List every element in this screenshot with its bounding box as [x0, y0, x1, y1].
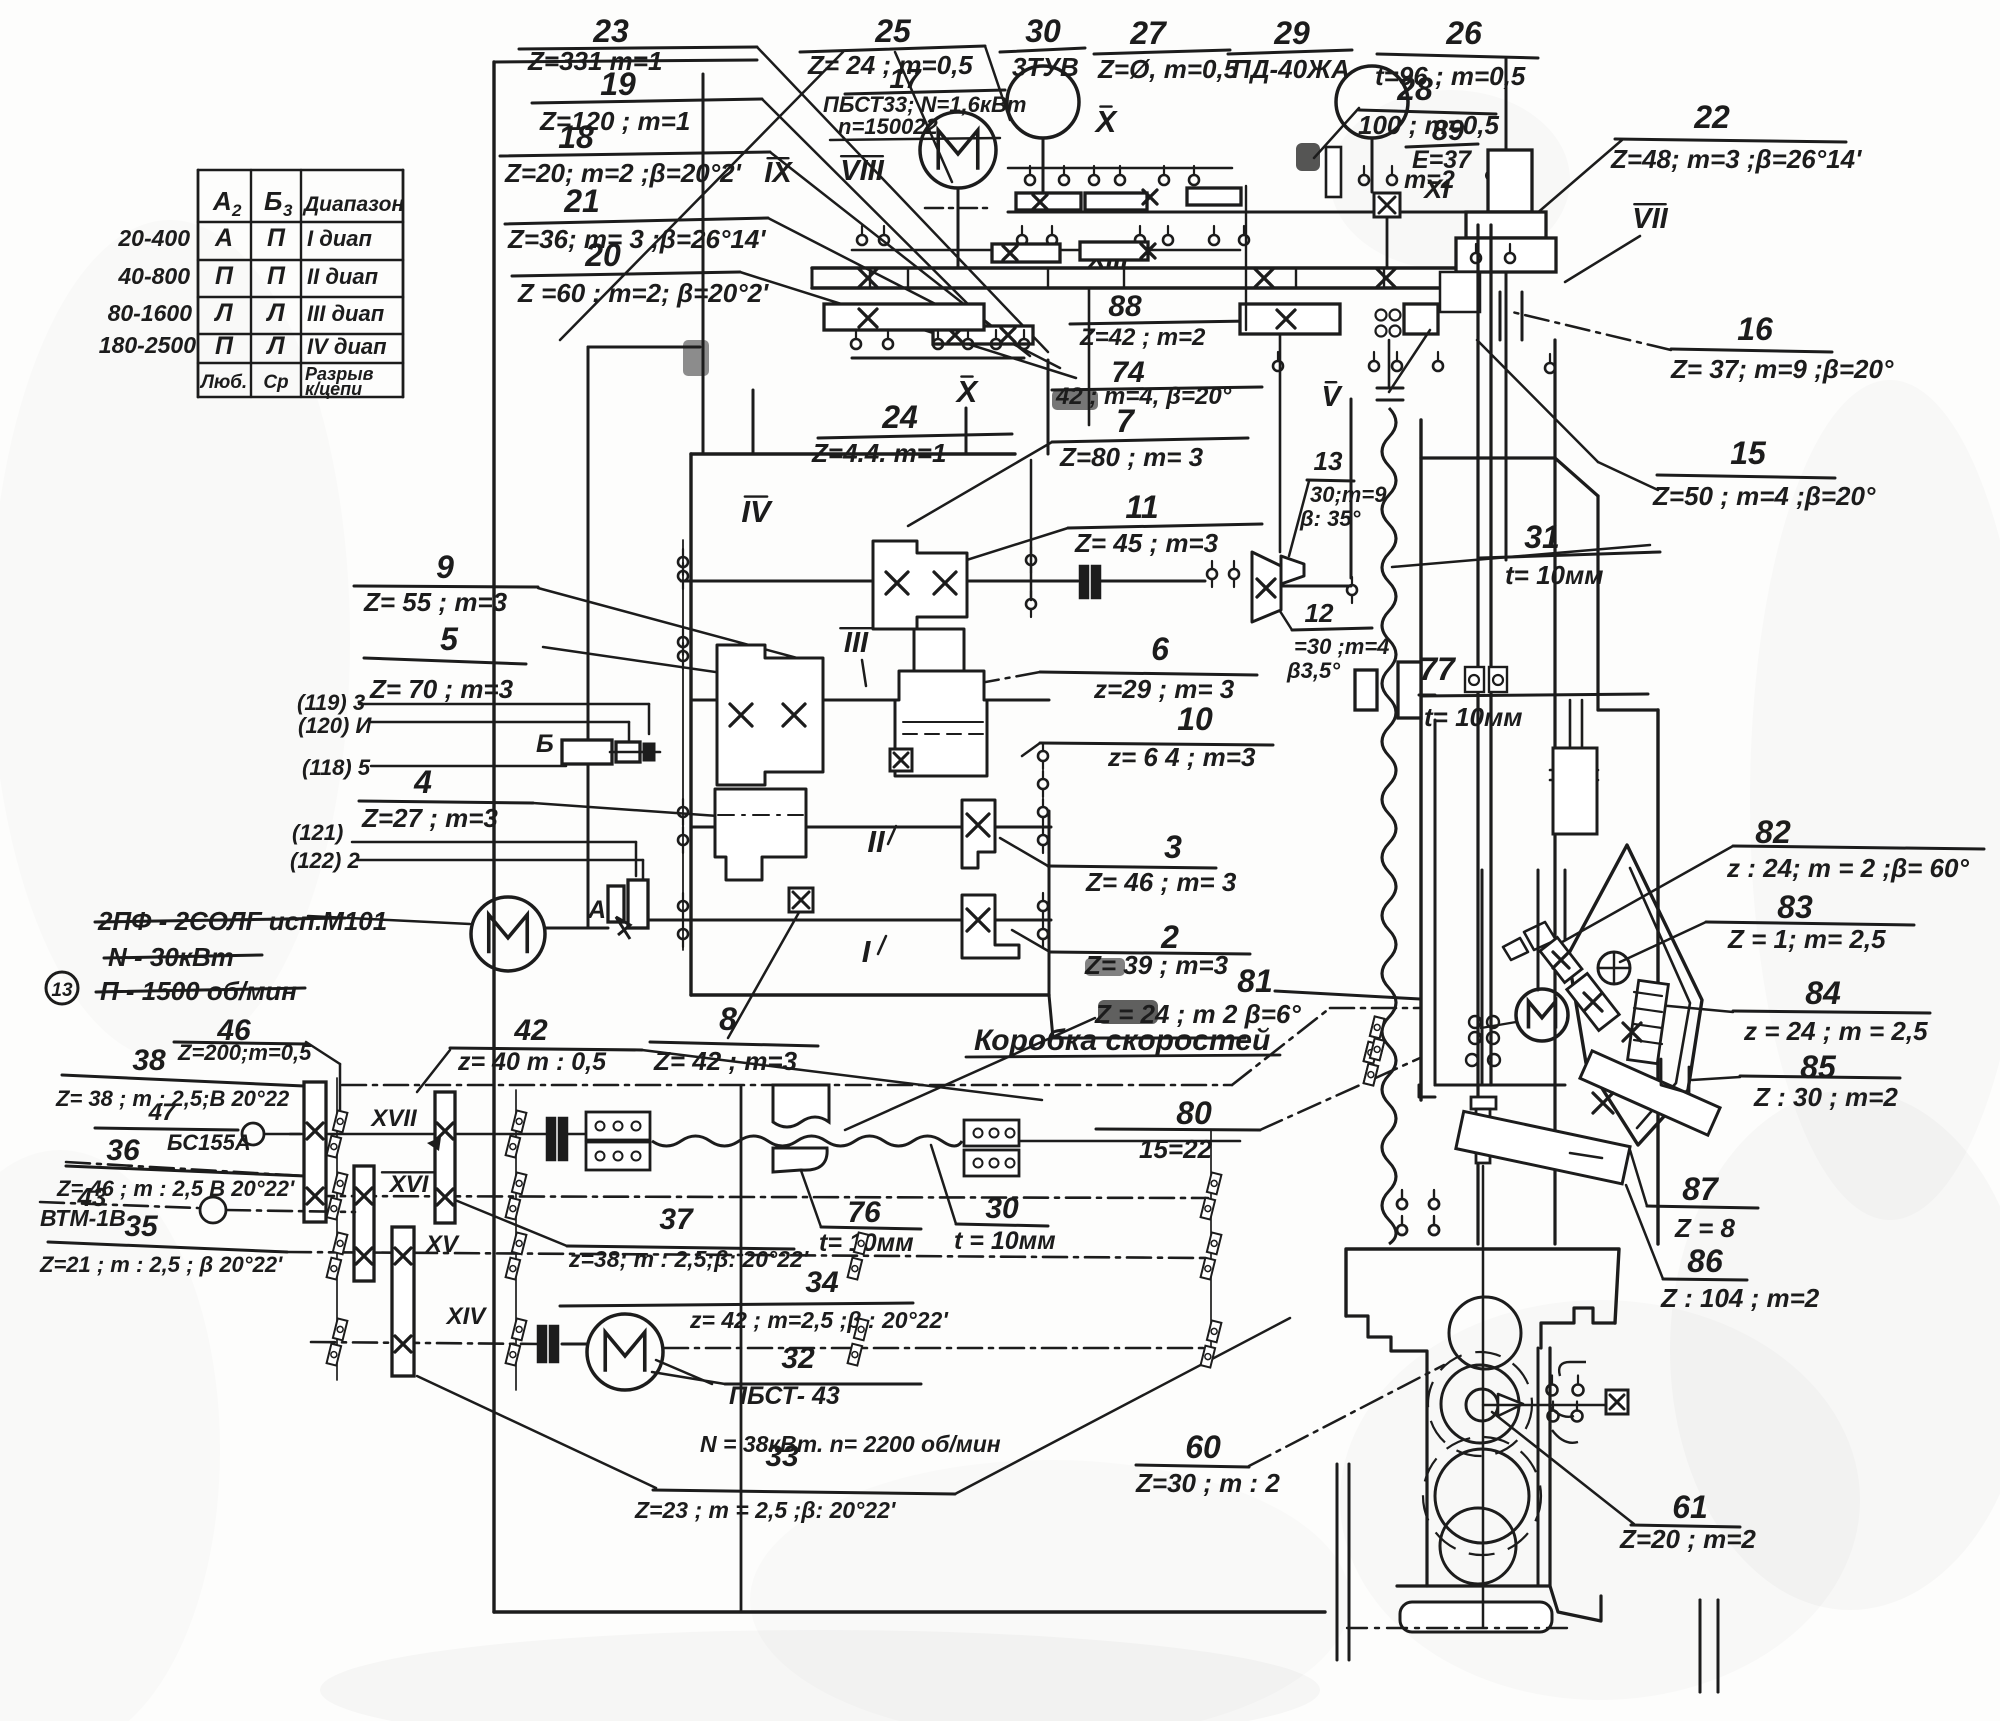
- svg-text:28: 28: [1396, 71, 1433, 107]
- svg-text:t= 10мм: t= 10мм: [1424, 702, 1522, 732]
- svg-text:Z : 104 ; m=2: Z : 104 ; m=2: [1660, 1283, 1820, 1313]
- svg-text:21: 21: [563, 183, 600, 219]
- svg-text:4: 4: [413, 764, 432, 800]
- svg-text:Z = 1; m= 2,5: Z = 1; m= 2,5: [1727, 924, 1886, 954]
- svg-text:87: 87: [1682, 1171, 1720, 1207]
- svg-text:Диапазон: Диапазон: [302, 193, 404, 216]
- svg-text:43: 43: [77, 1182, 107, 1212]
- svg-text:Z=20; m=2 ;β=20°2': Z=20; m=2 ;β=20°2': [504, 158, 742, 188]
- svg-text:77: 77: [1419, 651, 1457, 687]
- svg-text:z= 40 m : 0,5: z= 40 m : 0,5: [457, 1048, 607, 1076]
- svg-text:85: 85: [1800, 1049, 1837, 1085]
- svg-text:20-400: 20-400: [117, 225, 190, 251]
- svg-text:П: П: [267, 224, 286, 252]
- svg-text:Л: Л: [265, 299, 285, 327]
- svg-text:β3,5°: β3,5°: [1286, 658, 1340, 683]
- svg-text:Z=36; m= 3 ;β=26°14': Z=36; m= 3 ;β=26°14': [507, 224, 766, 254]
- svg-text:(120) И: (120) И: [298, 713, 372, 738]
- svg-text:ПБСТ- 43: ПБСТ- 43: [729, 1382, 840, 1410]
- svg-text:86: 86: [1687, 1243, 1723, 1279]
- svg-text:35: 35: [124, 1210, 159, 1243]
- svg-text:Z =60 ; m=2; β=20°2': Z =60 ; m=2; β=20°2': [517, 278, 769, 308]
- svg-text:Z=21 ; m : 2,5 ; β 20°22': Z=21 ; m : 2,5 ; β 20°22': [39, 1252, 283, 1277]
- svg-text:z = 24 ; m = 2,5: z = 24 ; m = 2,5: [1743, 1016, 1928, 1046]
- svg-text:12: 12: [1305, 598, 1334, 628]
- svg-text:76: 76: [847, 1196, 881, 1229]
- svg-text:Z=30 ; m : 2: Z=30 ; m : 2: [1135, 1468, 1280, 1498]
- svg-text:II диап: II диап: [307, 264, 379, 289]
- svg-text:23: 23: [592, 13, 629, 49]
- svg-text:15: 15: [1730, 435, 1767, 471]
- svg-text:z : 24; m = 2 ;β= 60°: z : 24; m = 2 ;β= 60°: [1726, 853, 1969, 883]
- svg-text:3: 3: [283, 201, 293, 220]
- svg-text:(118) 5: (118) 5: [302, 755, 371, 780]
- svg-text:20: 20: [584, 237, 621, 273]
- svg-text:Л: Л: [265, 332, 285, 360]
- svg-text:N = 38кВт. n= 2200 об/мин: N = 38кВт. n= 2200 об/мин: [700, 1431, 1001, 1457]
- svg-text:IV диап: IV диап: [307, 334, 387, 359]
- svg-text:22: 22: [1693, 99, 1730, 135]
- svg-text:I диап: I диап: [307, 226, 372, 251]
- svg-text:Z= 55 ; m=3: Z= 55 ; m=3: [363, 587, 508, 617]
- svg-text:ПД-40ЖА: ПД-40ЖА: [1232, 54, 1350, 84]
- svg-text:Б: Б: [264, 186, 282, 216]
- svg-text:9: 9: [436, 549, 454, 585]
- svg-text:33: 33: [765, 1440, 799, 1473]
- svg-text:Z= 37; m=9 ;β=20°: Z= 37; m=9 ;β=20°: [1670, 354, 1894, 384]
- svg-text:47: 47: [148, 1099, 177, 1126]
- svg-text:z=38; m : 2,5;β: 20°22': z=38; m : 2,5;β: 20°22': [568, 1246, 810, 1272]
- svg-text:А: А: [214, 224, 233, 252]
- svg-text:Б: Б: [536, 730, 554, 758]
- svg-text:38: 38: [132, 1044, 166, 1077]
- svg-text:36: 36: [106, 1134, 140, 1167]
- svg-text:(122) 2: (122) 2: [290, 848, 360, 873]
- svg-text:180-2500: 180-2500: [99, 332, 196, 358]
- svg-text:Л: Л: [213, 299, 233, 327]
- svg-text:3: 3: [1164, 829, 1182, 865]
- svg-text:83: 83: [1777, 889, 1813, 925]
- svg-text:40-800: 40-800: [117, 263, 190, 289]
- svg-text:6: 6: [1151, 631, 1169, 667]
- svg-text:БС155А: БС155А: [167, 1130, 251, 1155]
- svg-text:Z = 8: Z = 8: [1674, 1213, 1736, 1243]
- svg-text:XIV: XIV: [445, 1303, 488, 1330]
- svg-text:(121): (121): [292, 820, 343, 845]
- svg-text:88: 88: [1108, 290, 1142, 323]
- svg-text:П: П: [267, 262, 286, 290]
- svg-text:II: II: [867, 824, 886, 859]
- svg-text:82: 82: [1755, 814, 1791, 850]
- svg-text:11: 11: [1125, 489, 1158, 525]
- svg-text:37: 37: [659, 1203, 694, 1236]
- svg-text:XVI: XVI: [388, 1171, 430, 1198]
- svg-text:V: V: [1321, 381, 1343, 413]
- svg-text:89: 89: [1432, 115, 1464, 147]
- svg-text:13: 13: [1314, 446, 1343, 476]
- svg-text:III диап: III диап: [307, 301, 385, 326]
- svg-text:Z= 70 ; m=3: Z= 70 ; m=3: [369, 674, 514, 704]
- svg-text:III: III: [844, 627, 869, 659]
- svg-text:24: 24: [881, 399, 918, 435]
- svg-text:29: 29: [1273, 15, 1310, 51]
- svg-text:26: 26: [1445, 15, 1482, 51]
- svg-text:IX: IX: [764, 157, 793, 189]
- svg-text:Z=200;m=0,5: Z=200;m=0,5: [177, 1040, 312, 1065]
- svg-text:Люб.: Люб.: [199, 372, 247, 393]
- svg-text:Z=50 ; m=4 ;β=20°: Z=50 ; m=4 ;β=20°: [1652, 481, 1876, 511]
- svg-text:Ср: Ср: [263, 372, 288, 393]
- svg-text:А: А: [587, 896, 606, 924]
- svg-text:X: X: [1094, 104, 1119, 139]
- svg-text:Z=80 ; m= 3: Z=80 ; m= 3: [1059, 442, 1204, 472]
- svg-text:13: 13: [51, 980, 73, 1001]
- svg-text:60: 60: [1185, 1429, 1221, 1465]
- svg-text:Z=23 ; m = 2,5 ;β: 20°22': Z=23 ; m = 2,5 ;β: 20°22': [634, 1497, 897, 1523]
- svg-text:П: П: [215, 262, 234, 290]
- svg-text:27: 27: [1129, 15, 1168, 51]
- svg-text:=30 ;m=4: =30 ;m=4: [1294, 634, 1389, 659]
- svg-text:5: 5: [440, 621, 459, 657]
- svg-text:80-1600: 80-1600: [108, 300, 193, 326]
- svg-text:z= 6 4 ; m=3: z= 6 4 ; m=3: [1107, 742, 1256, 772]
- svg-text:A: A: [212, 186, 232, 216]
- svg-text:2: 2: [231, 201, 242, 220]
- svg-text:Z= 45 ; m=3: Z= 45 ; m=3: [1074, 528, 1219, 558]
- svg-text:X: X: [955, 374, 980, 409]
- svg-text:XI: XI: [1422, 174, 1450, 204]
- svg-text:t = 10мм: t = 10мм: [954, 1227, 1056, 1255]
- svg-text:8: 8: [719, 1001, 737, 1037]
- svg-text:7: 7: [1116, 403, 1136, 439]
- svg-text:z= 42 ; m=2,5 ;β : 20°22': z= 42 ; m=2,5 ;β : 20°22': [689, 1307, 949, 1333]
- svg-text:(119) 3: (119) 3: [297, 690, 365, 715]
- svg-text:Z=48; m=3 ;β=26°14': Z=48; m=3 ;β=26°14': [1610, 144, 1862, 174]
- svg-text:Z : 30 ; m=2: Z : 30 ; m=2: [1753, 1082, 1898, 1112]
- svg-text:VII: VII: [1632, 203, 1668, 235]
- svg-text:19: 19: [600, 66, 636, 102]
- svg-text:84: 84: [1805, 975, 1841, 1011]
- svg-text:18: 18: [558, 119, 594, 155]
- svg-text:z=29 ; m= 3: z=29 ; m= 3: [1093, 674, 1235, 704]
- svg-text:42: 42: [513, 1014, 548, 1047]
- svg-text:10: 10: [1177, 701, 1213, 737]
- svg-text:15=22: 15=22: [1139, 1134, 1213, 1164]
- svg-text:16: 16: [1737, 311, 1773, 347]
- svg-text:30: 30: [1025, 13, 1061, 49]
- svg-text:25: 25: [874, 13, 912, 49]
- svg-text:61: 61: [1672, 1489, 1708, 1525]
- svg-text:IV: IV: [741, 494, 773, 529]
- svg-text:Z=42 ; m=2: Z=42 ; m=2: [1079, 324, 1206, 351]
- svg-text:Z=27 ; m=3: Z=27 ; m=3: [361, 803, 498, 833]
- svg-text:30;m=9: 30;m=9: [1310, 482, 1387, 507]
- svg-text:к/цепи: к/цепи: [305, 379, 362, 399]
- svg-text:XVII: XVII: [369, 1105, 418, 1132]
- svg-text:81: 81: [1237, 963, 1273, 999]
- svg-text:34: 34: [805, 1266, 839, 1299]
- svg-text:Z=Ø, m=0,5: Z=Ø, m=0,5: [1097, 54, 1239, 84]
- svg-text:П: П: [215, 332, 234, 360]
- svg-text:I: I: [862, 934, 872, 969]
- svg-text:Z=20 ; m=2: Z=20 ; m=2: [1619, 1524, 1756, 1554]
- svg-text:80: 80: [1176, 1095, 1212, 1131]
- svg-text:Z= 46 ; m= 3: Z= 46 ; m= 3: [1085, 867, 1237, 897]
